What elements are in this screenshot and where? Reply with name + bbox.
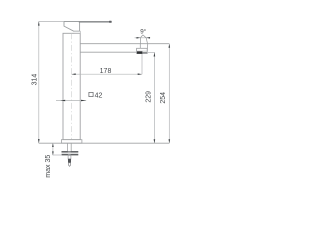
aerator dark tip xyxy=(137,51,142,53)
svg-text:178: 178 xyxy=(100,68,112,75)
dim 314 extension line top xyxy=(39,20,64,22)
spout end face (9 deg tilt) xyxy=(146,44,149,52)
threaded stud xyxy=(68,155,71,159)
dim 254 arrow top xyxy=(169,44,171,48)
dim 254 line xyxy=(168,44,170,144)
angle arrow left xyxy=(137,37,141,39)
dim 254 arrow bottom xyxy=(169,139,171,143)
washer bar 2 notch xyxy=(68,154,71,155)
svg-text:254: 254 xyxy=(160,92,167,104)
dim 42 arrow right xyxy=(81,100,86,102)
aerator inner line xyxy=(137,50,148,52)
washer bar 2 xyxy=(62,154,79,156)
spout arm top line xyxy=(80,43,169,45)
dim 314 line xyxy=(38,21,40,143)
dim 178 line xyxy=(72,73,142,75)
aerator tip shade xyxy=(142,52,147,53)
svg-text:229: 229 xyxy=(145,91,152,103)
svg-text:max 35: max 35 xyxy=(45,155,52,178)
dim 229 arrow bottom xyxy=(154,139,156,143)
handle base xyxy=(64,22,80,32)
dim 314 arrow top xyxy=(38,21,40,25)
dim 178 arrow left xyxy=(72,73,76,75)
dim 229 arrow top xyxy=(154,53,156,57)
lever bar end cap xyxy=(109,21,112,23)
svg-text:314: 314 xyxy=(32,74,39,86)
dim 42 line xyxy=(56,100,86,102)
stud tip xyxy=(69,163,71,167)
base plate xyxy=(61,140,82,144)
dim 229 extension xyxy=(148,52,155,54)
dim 314 arrow bottom xyxy=(38,139,40,143)
dim 42 arrow left xyxy=(60,100,65,102)
dim 178 extension line xyxy=(141,54,143,74)
handle neck collar xyxy=(74,31,80,33)
angle leg left xyxy=(140,35,143,44)
dim max35 extension bottom xyxy=(53,154,62,156)
dim 178 arrow right xyxy=(138,73,142,75)
lever handle bar xyxy=(79,21,112,23)
angle arrow line xyxy=(135,37,151,39)
dim max35 arrow top xyxy=(52,143,54,147)
aerator leg line xyxy=(139,44,141,48)
dim 229 line xyxy=(153,53,155,144)
svg-text:42: 42 xyxy=(95,92,103,99)
dim 42 square symbol xyxy=(89,92,93,96)
faucet body column xyxy=(63,33,80,139)
counter line xyxy=(39,142,170,144)
svg-text:9°: 9° xyxy=(140,29,146,36)
angle arrow right xyxy=(146,37,150,39)
aerator outlet block xyxy=(137,48,148,53)
threaded stud dark xyxy=(68,159,71,163)
angle leg right xyxy=(143,35,148,44)
dim max35 arrow bottom xyxy=(52,151,54,155)
spout arm bottom line xyxy=(80,51,136,53)
washer bar 1 notch xyxy=(68,151,71,152)
shank tube xyxy=(66,143,68,151)
dim max35 line xyxy=(52,143,54,155)
washer bar 1 xyxy=(62,151,79,153)
body centerline xyxy=(71,33,73,139)
